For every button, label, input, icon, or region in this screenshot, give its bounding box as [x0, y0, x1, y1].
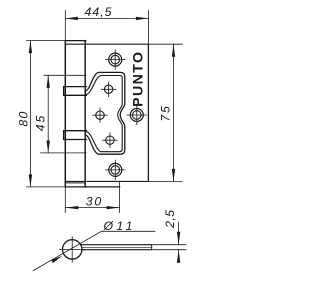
- dimension 80 arrow bottom: [29, 174, 32, 187]
- hinge barrel left edge: [64, 41, 66, 187]
- dimension 44,5 line: [65, 17, 148, 19]
- diameter leader line: [33, 231, 155, 270]
- inner plate screw hole bottom: [103, 133, 118, 148]
- dimension 44,5 arrow right: [136, 17, 149, 20]
- dimension 2,5 line upper: [178, 222, 180, 245]
- right plate screw hole middle: [127, 105, 147, 125]
- dimension 75 line: [173, 44, 175, 181]
- barrel bottom boundary: [65, 182, 85, 184]
- dimension 44,5 arrow left: [65, 17, 78, 20]
- dimension 44,5 extension left: [64, 11, 66, 41]
- knuckle separator block 2: [64, 131, 87, 140]
- side view barrel circle: [62, 240, 81, 259]
- svg-text:80: 80: [17, 111, 31, 126]
- svg-text:45: 45: [34, 116, 48, 132]
- dimension 75 arrow bottom: [172, 169, 175, 182]
- side view plate end cap: [151, 245, 153, 250]
- dimension 80 arrow top: [29, 41, 32, 54]
- svg-text:75: 75: [159, 106, 173, 122]
- svg-text:2,5: 2,5: [163, 210, 177, 229]
- dimension 45 extension bottom: [41, 152, 87, 154]
- right plate bottom edge: [65, 180, 148, 182]
- inner plate screw hole top: [101, 82, 116, 97]
- diameter leader arrow: [51, 256, 62, 264]
- dimension 45 arrow top: [47, 75, 50, 88]
- side view plate bottom edge: [82, 249, 152, 251]
- dimension 75 extension bottom: [148, 180, 182, 182]
- dimension 80 extension top: [27, 40, 66, 42]
- dimension 45 line: [47, 75, 49, 153]
- dimension 45 arrow bottom: [47, 141, 50, 154]
- dimension 30 extension left: [64, 188, 66, 213]
- knuckle separator block 1: [64, 87, 87, 96]
- dimension 2,5 extension top: [153, 244, 186, 246]
- dimension 2,5 line lower: [178, 250, 180, 261]
- dimension 2,5 arrow bottom: [177, 250, 180, 263]
- svg-text:44,5: 44,5: [85, 5, 112, 19]
- inner leaf bottom edge: [65, 186, 119, 188]
- dimension 30 arrow left: [65, 206, 78, 209]
- dimension 80 line: [29, 41, 31, 187]
- inner plate inner outline: [85, 75, 122, 151]
- dimension 75 extension top: [148, 43, 182, 45]
- dimension 75 arrow top: [172, 44, 175, 57]
- svg-text:Ø11: Ø11: [103, 219, 133, 233]
- dimension 2,5 arrow top: [177, 232, 180, 245]
- dimension 30 line: [65, 207, 119, 209]
- inner plate outer outline: [85, 72, 125, 154]
- right plate top edge: [65, 43, 148, 45]
- right plate screw hole top: [105, 50, 125, 70]
- dimension 2,5 extension bottom: [153, 249, 186, 251]
- svg-text:PUNTO: PUNTO: [131, 52, 147, 107]
- dimension 44,5 extension right: [147, 11, 149, 45]
- right plate screw hole bottom: [106, 160, 126, 180]
- right plate right edge: [147, 44, 149, 181]
- side view plate top edge: [81, 244, 152, 246]
- side view plate middle line: [82, 246, 152, 248]
- hinge barrel top edge: [65, 40, 86, 42]
- dimension 45 extension top: [44, 74, 86, 76]
- dimension 80 extension bottom: [27, 186, 66, 188]
- inner plate screw hole middle: [93, 108, 108, 123]
- svg-text:30: 30: [86, 194, 102, 208]
- dimension 30 arrow right: [107, 206, 120, 209]
- hinge barrel right edge: [84, 41, 86, 187]
- side view barrel centerlines: [60, 237, 86, 263]
- dimension 30 extension right: [119, 182, 121, 213]
